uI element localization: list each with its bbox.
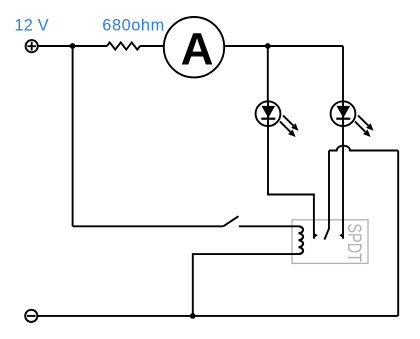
relay pole (common) with blade bbox=[324, 151, 329, 240]
relay coil bbox=[299, 226, 304, 254]
wire: bottom junction up to relay coil bbox=[193, 254, 299, 316]
relay throw contact 1 arrowhead bbox=[314, 233, 318, 238]
switch S1 blade bbox=[223, 216, 238, 226]
wire: left rail to switch bbox=[73, 225, 224, 227]
wire: + terminal to resistor bbox=[38, 45, 107, 47]
wire: resistor to ammeter bbox=[140, 45, 164, 47]
node junction above LED1 bbox=[265, 43, 271, 49]
svg-text:12 V: 12 V bbox=[15, 16, 49, 34]
battery positive terminal bbox=[26, 40, 38, 52]
wire: LED1 to relay throw 1 bbox=[268, 126, 314, 239]
wire: junction down to LED1 bbox=[267, 46, 269, 101]
svg-text:A: A bbox=[181, 24, 214, 75]
wire: switch to relay coil bbox=[239, 225, 299, 227]
relay throw contact 2 arrowhead bbox=[339, 233, 343, 238]
node junction top-left bbox=[70, 43, 76, 49]
resistor R1 zigzag bbox=[107, 42, 140, 49]
svg-text:SPDT: SPDT bbox=[343, 223, 365, 262]
wire: LED2 to relay throw 2 bbox=[342, 126, 344, 239]
relay K1 box bbox=[292, 220, 368, 264]
LED D2 bbox=[331, 101, 374, 137]
wire: right rail down bbox=[397, 151, 399, 316]
LED D1 bbox=[256, 101, 299, 137]
node junction bottom bbox=[190, 313, 196, 319]
wire: corner down to LED2 bbox=[342, 46, 344, 101]
wire: pole to right rail, hop over LED2 wire bbox=[329, 146, 398, 151]
battery negative terminal bbox=[25, 310, 37, 322]
wire: left rail down from top junction bbox=[72, 46, 74, 226]
wire: ammeter to LED2 corner bbox=[224, 45, 343, 47]
svg-text:680ohm: 680ohm bbox=[102, 16, 164, 34]
wire: bottom rail bbox=[37, 315, 398, 317]
ammeter A1 bbox=[164, 17, 224, 77]
